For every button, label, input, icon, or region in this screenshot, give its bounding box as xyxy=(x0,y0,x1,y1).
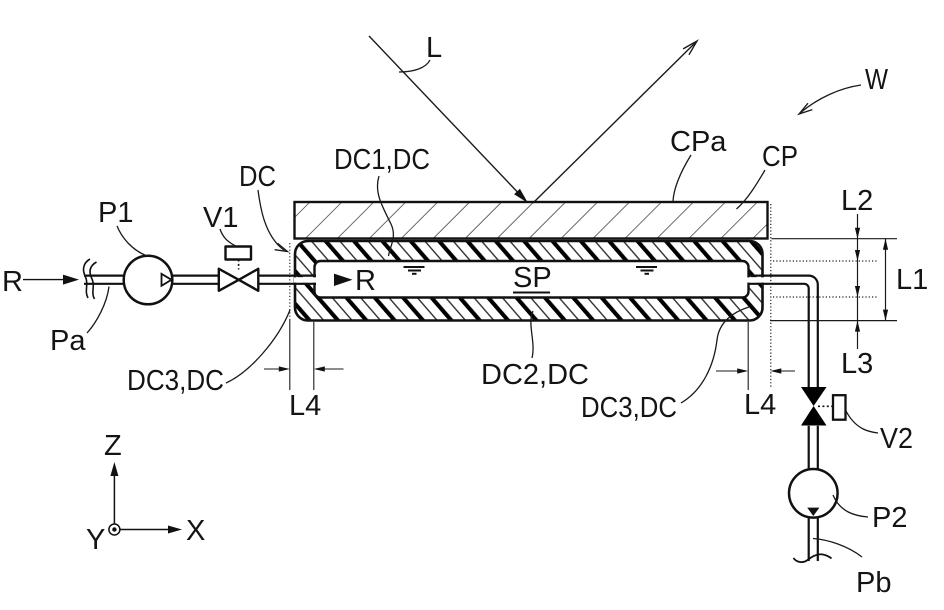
svg-text:Z: Z xyxy=(104,430,122,462)
svg-text:P1: P1 xyxy=(98,197,133,229)
svg-text:DC: DC xyxy=(239,161,276,193)
svg-text:L1: L1 xyxy=(896,264,928,296)
svg-text:SP: SP xyxy=(513,262,552,294)
svg-text:L3: L3 xyxy=(841,348,873,380)
svg-text:R: R xyxy=(355,265,376,297)
svg-text:CPa: CPa xyxy=(670,126,727,158)
svg-text:DC3,DC: DC3,DC xyxy=(581,392,677,424)
svg-text:P2: P2 xyxy=(872,502,907,534)
svg-text:Pa: Pa xyxy=(50,325,86,357)
svg-text:CP: CP xyxy=(762,141,798,173)
svg-text:DC1,DC: DC1,DC xyxy=(334,144,430,176)
svg-text:L2: L2 xyxy=(841,185,873,217)
svg-text:R: R xyxy=(2,266,23,298)
svg-text:L4: L4 xyxy=(289,390,321,422)
svg-text:X: X xyxy=(186,515,205,547)
svg-text:DC3,DC: DC3,DC xyxy=(127,365,224,397)
svg-text:Pb: Pb xyxy=(856,567,891,599)
svg-text:L4: L4 xyxy=(744,389,776,421)
svg-text:W: W xyxy=(865,64,889,96)
svg-text:L: L xyxy=(426,32,442,64)
svg-text:Y: Y xyxy=(86,524,105,556)
svg-text:DC2,DC: DC2,DC xyxy=(481,359,589,391)
svg-text:V2: V2 xyxy=(880,423,913,455)
svg-text:V1: V1 xyxy=(203,202,238,234)
